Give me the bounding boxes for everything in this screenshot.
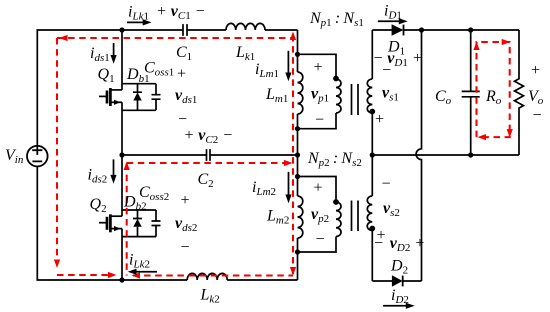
inductor Lk1	[226, 23, 265, 30]
red loop wire bottom-right	[133, 274, 293, 276]
svg-text:vs2: vs2	[383, 200, 400, 219]
current arrow ids1	[113, 43, 115, 57]
svg-text:iD2: iD2	[391, 287, 409, 306]
current arrow iLm1	[287, 51, 289, 75]
red arrowhead down at Lm bottom	[290, 267, 296, 276]
arrowhead ids2	[110, 175, 116, 184]
capacitor Co	[462, 91, 480, 96]
red arrowhead right output loop	[502, 39, 511, 45]
svg-text:Coss1: Coss1	[144, 60, 174, 79]
svg-text:iLk1: iLk1	[128, 4, 149, 23]
red arrowhead right on C2 row	[284, 160, 293, 166]
winding vp1 coil	[336, 79, 341, 113]
svg-text:−: −	[532, 107, 543, 124]
core transformer 1	[352, 84, 359, 115]
svg-text:−vD2 +: −vD2 +	[373, 235, 425, 254]
red loop wire C2 row	[127, 162, 290, 164]
svg-text:+: +	[313, 180, 324, 197]
svg-text:vp1: vp1	[311, 86, 329, 105]
wire switch bus	[121, 30, 123, 280]
resistor Ro	[515, 30, 524, 155]
svg-text:Lk1: Lk1	[235, 44, 255, 63]
wire Lk2 to transformer	[227, 279, 297, 281]
core transformer 2	[352, 201, 359, 232]
svg-text:iLm2: iLm2	[252, 179, 276, 198]
inductor Lm1	[298, 72, 303, 114]
svg-text:+: +	[530, 62, 541, 79]
svg-text:Lm2: Lm2	[266, 208, 289, 227]
arrowhead iLk2	[128, 269, 137, 275]
diode D2	[392, 275, 403, 286]
wire output bottom rail	[372, 154, 519, 156]
inductor Lk2	[187, 273, 227, 280]
red arrowhead up on Q2 vertical	[124, 162, 130, 171]
BLACKARROWS	[114, 21, 409, 306]
svg-text:Lk2: Lk2	[200, 287, 220, 306]
svg-text:+: +	[374, 111, 385, 128]
capacitor C1	[183, 24, 187, 36]
red loop wire left	[56, 38, 58, 263]
wire diode D1 row / top output rail	[372, 29, 519, 31]
wire left+top to C1	[37, 30, 183, 146]
winding secondary vs1	[367, 30, 372, 155]
transistor Q2	[99, 210, 156, 237]
voltage source Vin	[27, 146, 48, 167]
red arrowhead right bottom-left	[108, 272, 117, 278]
svg-text:Lm1: Lm1	[265, 86, 288, 105]
current arrow iLk1	[127, 21, 145, 23]
red arrowhead left output loop	[478, 134, 487, 140]
transistor Q1	[99, 84, 156, 111]
svg-text:+: +	[313, 59, 324, 76]
svg-text:+ vC2 −: + vC2 −	[184, 127, 234, 146]
svg-text:ids2: ids2	[88, 167, 108, 186]
svg-text:C2: C2	[198, 171, 214, 190]
svg-text:D2: D2	[390, 258, 408, 277]
wire left bottom	[37, 166, 187, 280]
diode D1	[392, 24, 404, 35]
svg-text:iD1: iD1	[384, 3, 402, 22]
svg-text:iLm1: iLm1	[255, 61, 279, 80]
capacitor Coss1	[152, 95, 161, 100]
svg-text:Ro: Ro	[485, 88, 502, 107]
current arrow iLm2	[288, 172, 290, 197]
svg-text:C1: C1	[176, 44, 192, 63]
winding secondary vs2	[367, 155, 372, 281]
current arrow iLk2	[134, 271, 157, 273]
svg-text:Vin: Vin	[5, 147, 24, 166]
winding vp2 coil	[336, 202, 341, 237]
wire C1 to Lk1	[187, 29, 226, 31]
svg-text:−: −	[180, 239, 191, 256]
svg-text:−: −	[177, 111, 188, 128]
svg-text:vp2: vp2	[311, 206, 329, 225]
svg-text:Q1: Q1	[98, 66, 115, 85]
arrowhead iLm2	[285, 195, 291, 204]
inductor Lm2	[298, 196, 303, 238]
svg-text:Coss2: Coss2	[139, 184, 169, 203]
RED	[57, 35, 510, 276]
svg-text:−: −	[381, 176, 392, 193]
diode Db1	[133, 84, 142, 111]
arrowhead iLk1	[143, 19, 152, 25]
diode Db2	[133, 210, 142, 237]
wire transformer left line	[297, 30, 299, 280]
capacitor C2	[207, 149, 211, 161]
red loop wire Lm line	[292, 35, 294, 274]
wire right vertical with hop	[416, 30, 421, 281]
arrowhead iD1	[399, 18, 408, 24]
arrowhead iD2	[406, 303, 415, 309]
svg-text:ids1: ids1	[90, 45, 110, 64]
svg-text:iLk2: iLk2	[129, 252, 150, 271]
arrowhead ids1	[111, 55, 117, 64]
svg-text:vs1: vs1	[382, 85, 399, 104]
red loop wire Q2 vertical	[126, 164, 128, 276]
current arrow ids2	[113, 159, 115, 177]
svg-text:−: −	[315, 231, 326, 248]
svg-text:+ vC1 −: + vC1 −	[156, 3, 206, 22]
red loop wire bottom-left	[57, 274, 114, 276]
red loop output rectangle	[477, 42, 510, 137]
wire Co branch	[470, 30, 472, 155]
polarity dots	[333, 76, 375, 232]
svg-text:Co: Co	[435, 88, 452, 107]
winding primary vp1 box	[298, 54, 337, 128]
arrowhead iLm1	[285, 73, 291, 82]
wire C2 row	[122, 154, 298, 156]
red arrowhead left on top wire	[59, 35, 68, 41]
red arrowhead up at Lm top	[290, 32, 296, 41]
red arrowhead left bottom-right	[132, 272, 141, 278]
svg-text:Np1 : Ns1: Np1 : Ns1	[309, 10, 364, 29]
svg-text:+: +	[176, 66, 187, 83]
svg-text:Np2 : Ns2: Np2 : Ns2	[307, 150, 362, 169]
svg-text:−: −	[381, 62, 392, 79]
svg-text:Vo: Vo	[528, 88, 544, 107]
winding primary vp2 box	[298, 177, 337, 253]
red arrowhead up output loop	[473, 42, 479, 51]
svg-text:vds1: vds1	[175, 87, 197, 106]
current arrow iD2	[383, 305, 408, 307]
current arrow iD1	[378, 20, 401, 22]
red arrowhead down on left wire	[54, 260, 60, 269]
wire Lk1 to transformer	[265, 29, 298, 31]
capacitor Coss2	[152, 221, 161, 226]
wire diode D2 row	[372, 280, 421, 282]
red loop wire top	[57, 37, 293, 39]
svg-text:Q2: Q2	[90, 196, 107, 215]
svg-text:+: +	[180, 192, 191, 209]
red arrowhead down output loop	[507, 129, 513, 138]
svg-text:−: −	[314, 112, 325, 129]
svg-text:vds2: vds2	[175, 215, 197, 234]
